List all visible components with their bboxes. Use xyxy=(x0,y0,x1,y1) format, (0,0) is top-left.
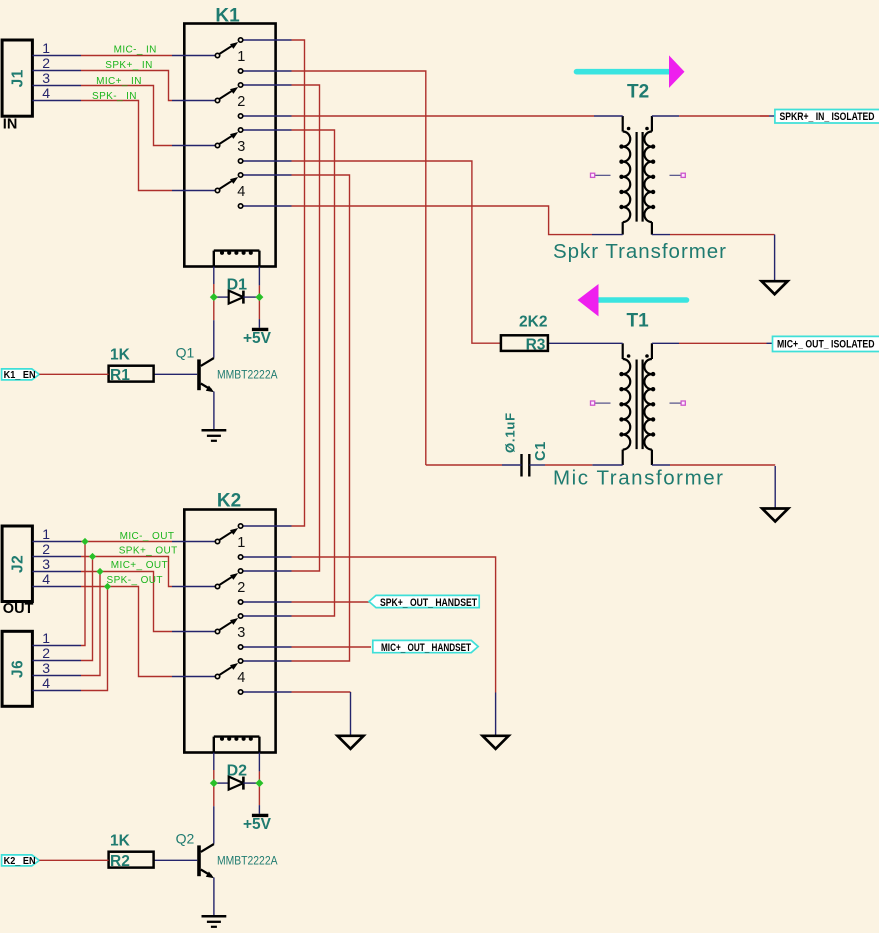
svg-text:T2: T2 xyxy=(627,82,649,103)
svg-text:J6: J6 xyxy=(10,660,27,678)
svg-text:MMBT2222A: MMBT2222A xyxy=(217,370,278,382)
svg-text:1K: 1K xyxy=(110,833,131,850)
svg-text:4: 4 xyxy=(42,85,50,101)
svg-text:SPK-_ OUT: SPK-_ OUT xyxy=(107,575,163,586)
svg-text:1: 1 xyxy=(42,630,50,646)
svg-text:K2_ EN: K2_ EN xyxy=(4,856,36,867)
svg-text:IN: IN xyxy=(3,117,17,133)
svg-text:2: 2 xyxy=(237,94,245,110)
svg-text:3: 3 xyxy=(42,70,50,86)
svg-text:3: 3 xyxy=(42,660,50,676)
svg-text:Q1: Q1 xyxy=(176,345,195,361)
svg-text:R3: R3 xyxy=(526,337,546,354)
svg-text:MIC+_ OUT_ ISOLATED: MIC+_ OUT_ ISOLATED xyxy=(777,339,875,351)
svg-text:SPK+_ IN: SPK+_ IN xyxy=(105,60,152,71)
svg-text:SPK+_ OUT_ HANDSET: SPK+_ OUT_ HANDSET xyxy=(380,597,477,609)
svg-text:J1: J1 xyxy=(10,69,27,87)
svg-text:2: 2 xyxy=(42,541,50,557)
svg-text:T1: T1 xyxy=(627,311,650,332)
svg-text:Mic Transformer: Mic Transformer xyxy=(553,467,723,490)
svg-text:MIC-_ OUT: MIC-_ OUT xyxy=(120,531,175,542)
svg-text:K1: K1 xyxy=(215,6,240,27)
svg-text:MIC-_ IN: MIC-_ IN xyxy=(114,45,157,56)
svg-text:Ø.1uF: Ø.1uF xyxy=(503,412,518,453)
svg-text:2: 2 xyxy=(237,580,245,596)
svg-text:MIC+_ OUT_ HANDSET: MIC+_ OUT_ HANDSET xyxy=(381,642,471,654)
svg-text:4: 4 xyxy=(42,675,50,691)
svg-text:4: 4 xyxy=(237,670,245,686)
svg-text:Spkr Transformer: Spkr Transformer xyxy=(553,240,726,263)
svg-text:1K: 1K xyxy=(110,347,131,364)
svg-text:J2: J2 xyxy=(10,555,27,573)
svg-text:3: 3 xyxy=(42,556,50,572)
svg-text:2: 2 xyxy=(42,55,50,71)
svg-text:+5V: +5V xyxy=(243,330,272,347)
svg-text:D1: D1 xyxy=(227,277,248,294)
svg-text:4: 4 xyxy=(42,571,50,587)
svg-text:R2: R2 xyxy=(110,853,130,870)
svg-text:SPK+_ OUT: SPK+_ OUT xyxy=(119,545,178,556)
svg-text:R1: R1 xyxy=(110,367,130,384)
svg-text:K1_ EN: K1_ EN xyxy=(4,370,36,381)
svg-text:1: 1 xyxy=(42,40,50,56)
svg-text:2K2: 2K2 xyxy=(519,314,547,331)
svg-text:1: 1 xyxy=(237,49,245,65)
svg-text:4: 4 xyxy=(237,184,245,200)
svg-text:SPK-_ IN: SPK-_ IN xyxy=(92,91,137,102)
svg-text:SPKR+_ IN_ ISOLATED: SPKR+_ IN_ ISOLATED xyxy=(780,111,875,123)
svg-text:Q2: Q2 xyxy=(176,831,195,847)
svg-text:MMBT2222A: MMBT2222A xyxy=(217,856,278,868)
svg-text:D2: D2 xyxy=(227,763,248,780)
svg-text:2: 2 xyxy=(42,645,50,661)
svg-text:K2: K2 xyxy=(217,491,241,512)
svg-text:1: 1 xyxy=(42,526,50,542)
svg-text:MIC+_ IN: MIC+_ IN xyxy=(96,76,142,87)
svg-text:3: 3 xyxy=(237,625,245,641)
svg-text:MIC+_ OUT: MIC+_ OUT xyxy=(111,560,168,571)
svg-text:1: 1 xyxy=(237,535,245,551)
svg-text:+5V: +5V xyxy=(243,816,272,833)
svg-text:OUT: OUT xyxy=(3,601,34,617)
svg-text:C1: C1 xyxy=(533,441,549,461)
svg-text:3: 3 xyxy=(237,139,245,155)
